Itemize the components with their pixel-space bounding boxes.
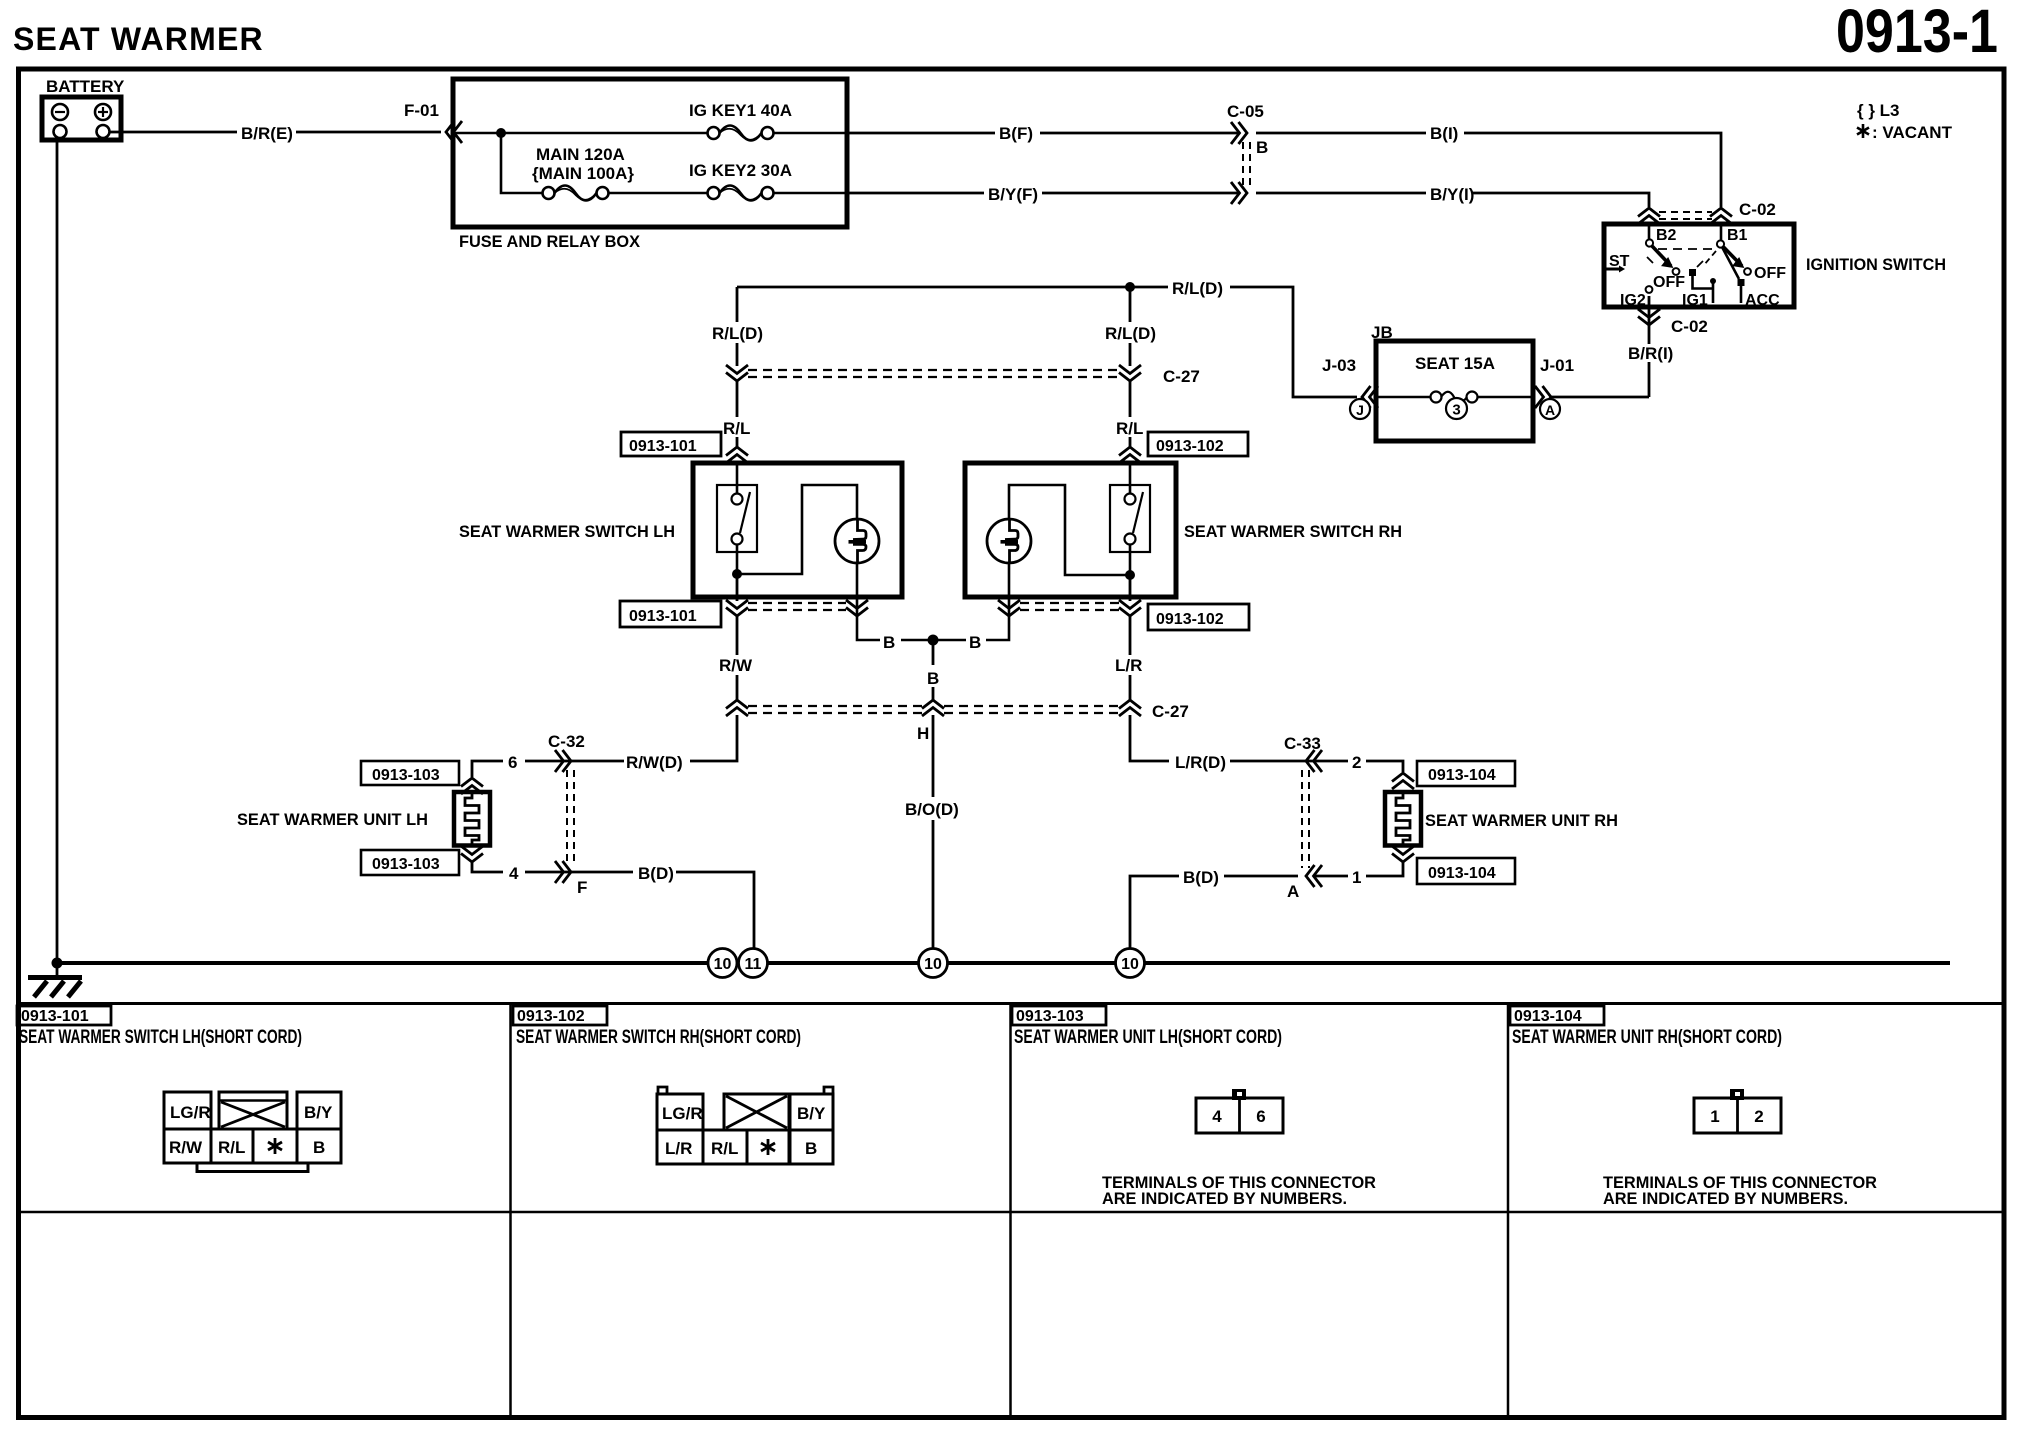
- indicator lamp RH: [987, 519, 1031, 563]
- svg-text:IG KEY2 30A: IG KEY2 30A: [689, 161, 792, 180]
- svg-text:6: 6: [508, 753, 517, 772]
- connector C-02 label lower: [1671, 317, 1708, 336]
- svg-text:J-03: J-03: [1322, 356, 1356, 375]
- connector J-03 chevron: [1362, 386, 1378, 408]
- switch LH contact: [717, 463, 757, 574]
- wire label B(F): [999, 124, 1033, 143]
- seat warmer unit LH element: [454, 792, 490, 846]
- connector face 0913-104 pins 1 and 2: [1694, 1098, 1781, 1133]
- wire inside fuse box top: [453, 132, 847, 135]
- wire B(D) LH to ground 11: [676, 872, 754, 949]
- fuse box label FUSE AND RELAY BOX: [459, 232, 641, 251]
- seat warmer unit LH label: [237, 810, 428, 829]
- connector 0913-102 chevron top: [1119, 447, 1141, 463]
- wire label R/W: [719, 656, 753, 675]
- svg-text:0913-101: 0913-101: [629, 608, 697, 625]
- svg-text:J-01: J-01: [1540, 356, 1574, 375]
- table cell 0913-102 title: [516, 1027, 801, 1048]
- page number 0913-1: [1836, 0, 1998, 65]
- ground symbol: [28, 963, 82, 997]
- connector C-33 label: [1284, 734, 1321, 753]
- svg-text:0913-104: 0913-104: [1428, 865, 1496, 882]
- svg-text:SEAT WARMER UNIT RH(SHORT CORD: SEAT WARMER UNIT RH(SHORT CORD): [1512, 1027, 1782, 1048]
- junction in fuse box: [496, 128, 506, 138]
- terminal ST stub: [1606, 268, 1619, 271]
- svg-text:B: B: [313, 1138, 325, 1157]
- pin number 4: [509, 864, 519, 883]
- connector C-05 chevron on wire B/Y: [1231, 182, 1247, 204]
- junction inside switch RH: [1125, 570, 1135, 580]
- connector C-02 link dashes upper: [1659, 212, 1712, 219]
- connector J-01 chevron: [1535, 386, 1551, 408]
- connector face 0913-102 corner lugs: [658, 1087, 833, 1094]
- connector C-05 label: [1227, 102, 1264, 121]
- svg-text:SEAT WARMER UNIT RH: SEAT WARMER UNIT RH: [1425, 811, 1618, 830]
- wire label R/L right: [1116, 419, 1143, 438]
- connector 0913-101 chevron bottom left: [726, 600, 748, 616]
- svg-text:FUSE AND RELAY BOX: FUSE AND RELAY BOX: [459, 232, 641, 251]
- connector 0913-103 tab top: [361, 761, 459, 785]
- node H label: [917, 724, 929, 743]
- junction block box: [1376, 341, 1533, 441]
- table cell 0913-103 title: [1014, 1027, 1282, 1048]
- connector C-27 lower chevron right: [1119, 700, 1141, 716]
- ignition switch terminal labels: [1609, 227, 1786, 309]
- connector C-27 upper link dashes: [748, 370, 1119, 377]
- svg-text:LG/R: LG/R: [170, 1103, 211, 1122]
- svg-text:B: B: [969, 633, 981, 652]
- blade B2 to OFF: [1652, 246, 1671, 266]
- blade B1 to OFF right: [1724, 247, 1743, 266]
- svg-text:2: 2: [1352, 753, 1361, 772]
- connector face 0913-101 pin LG/R: [164, 1092, 211, 1129]
- svg-text:0913-104: 0913-104: [1428, 767, 1496, 784]
- connector 0913-101 tab top: [621, 432, 721, 456]
- wire B(D) RH to ground 10: [1130, 876, 1298, 949]
- connector J-01 circled A: [1540, 399, 1560, 419]
- svg-text:B(D): B(D): [638, 864, 674, 883]
- svg-text:ARE INDICATED BY NUMBERS.: ARE INDICATED BY NUMBERS.: [1603, 1189, 1848, 1208]
- wire through JB: [1376, 396, 1533, 399]
- wire switch LH output to box edge: [736, 574, 739, 601]
- connector face 0913-102 vacant crossed cavity: [724, 1094, 789, 1130]
- wire R/L(D) down to switch LH: [736, 287, 739, 448]
- indicator lamp LH: [835, 519, 879, 563]
- svg-text:H: H: [917, 724, 929, 743]
- pin number 1: [1352, 868, 1361, 887]
- svg-text:F-01: F-01: [404, 101, 439, 120]
- svg-text:C-02: C-02: [1671, 317, 1708, 336]
- svg-text:A: A: [1545, 402, 1555, 418]
- wire label B/R(E): [241, 124, 293, 143]
- connector face 0913-101 pin R/W: [164, 1129, 211, 1163]
- connector C-05 chevron on wire B: [1231, 122, 1247, 144]
- svg-text:1: 1: [1352, 868, 1361, 887]
- svg-text:R/L: R/L: [711, 1139, 738, 1158]
- connector face 0913-102 pin B: [790, 1130, 833, 1164]
- connector 0913-101 chevron bottom right: [846, 600, 868, 616]
- connector C-02 chevron upper right (B1 wire): [1710, 208, 1732, 224]
- node F label: [577, 878, 587, 897]
- svg-text:10: 10: [1121, 956, 1139, 973]
- connector face 0913-101 keying bracket: [197, 1163, 308, 1172]
- connector C-33 link dashes: [1302, 770, 1309, 868]
- connector C-33 chevron on B(D) with A: [1306, 865, 1322, 887]
- svg-text:OFF: OFF: [1754, 265, 1786, 282]
- svg-text:B: B: [883, 633, 895, 652]
- legend L3: [1857, 101, 1900, 120]
- wire B/O(D) down to ground: [932, 715, 935, 949]
- ground point 11: [739, 949, 768, 978]
- ground point 10 (center): [919, 949, 948, 978]
- connector face 0913-101 vacant crossed cavity: [219, 1092, 287, 1129]
- connector 0913-104 tab top: [1417, 761, 1515, 786]
- connector C-02 chevron lower: [1638, 309, 1660, 325]
- fuse MAIN 120A: [543, 186, 609, 201]
- terminal B1: [1720, 224, 1723, 240]
- connector face 0913-102 pin B/Y: [790, 1094, 833, 1130]
- svg-text:R/L: R/L: [218, 1138, 245, 1157]
- note terminals text RH: [1603, 1173, 1877, 1208]
- svg-text:3: 3: [1452, 402, 1460, 419]
- svg-text:B/Y(I): B/Y(I): [1430, 185, 1474, 204]
- svg-text:IG2: IG2: [1620, 292, 1646, 309]
- fuse MAIN 120A label: [532, 145, 634, 183]
- svg-text:B2: B2: [1656, 227, 1677, 244]
- connector 0913-102 tab top: [1148, 432, 1248, 456]
- junction B wires: [928, 635, 939, 646]
- junction inside switch LH: [732, 569, 742, 579]
- table column divider 2: [1009, 1004, 1012, 1418]
- svg-text:6: 6: [1256, 1107, 1265, 1126]
- battery: [42, 97, 121, 140]
- table cell 0913-101 tab: [17, 1006, 111, 1025]
- seat warmer unit RH element: [1385, 792, 1421, 846]
- svg-text:2: 2: [1754, 1107, 1763, 1126]
- svg-text:0913-104: 0913-104: [1514, 1008, 1582, 1025]
- wire switch RH to lamp: [1009, 485, 1130, 575]
- wire label B/Y(I): [1430, 185, 1474, 204]
- connector J-01 label: [1540, 356, 1574, 375]
- svg-text:B/R(I): B/R(I): [1628, 344, 1673, 363]
- connector J-03 circled J: [1350, 399, 1370, 419]
- svg-text:L/R: L/R: [665, 1139, 692, 1158]
- fuse and relay box: [453, 79, 847, 227]
- svg-text:10: 10: [714, 956, 732, 973]
- connector face 0913-101 pin vacant *: [253, 1129, 297, 1163]
- wire B(I) C-05 to ignition switch B1: [1256, 133, 1721, 207]
- svg-text:LG/R: LG/R: [662, 1104, 703, 1123]
- connector C-32 link dashes: [567, 770, 574, 864]
- connector C-27 lower chevron mid: [922, 700, 944, 716]
- svg-text:R/L(D): R/L(D): [712, 324, 763, 343]
- svg-text:B/Y: B/Y: [797, 1104, 826, 1123]
- svg-text:0913-101: 0913-101: [21, 1008, 89, 1025]
- connector face 0913-101 pin R/L: [211, 1129, 253, 1163]
- blade B1 to ACC: [1722, 247, 1739, 279]
- svg-text:C-02: C-02: [1739, 200, 1776, 219]
- wire pin 4 segment: [472, 862, 633, 872]
- node A label: [1287, 882, 1299, 901]
- connector face 0913-102 pin LG/R: [657, 1094, 703, 1130]
- connector face 0913-103 pins 4 and 6: [1196, 1098, 1283, 1133]
- svg-text:IGNITION SWITCH: IGNITION SWITCH: [1806, 255, 1946, 274]
- wire label B(I): [1430, 124, 1458, 143]
- junction R/L(D) split: [1125, 282, 1135, 292]
- ignition switch label: [1806, 255, 1946, 274]
- wire lamp LH to B junction: [857, 563, 933, 640]
- table cell 0913-104 title: [1512, 1027, 1782, 1048]
- svg-text:0913-103: 0913-103: [1016, 1008, 1084, 1025]
- wire label R/L(D) right drop: [1105, 324, 1156, 343]
- connector face 0913-104 clip: [1730, 1089, 1744, 1100]
- wire label R/L(D) left drop: [712, 324, 763, 343]
- wire label B(D) right: [1183, 868, 1219, 887]
- svg-text:0913-1: 0913-1: [1836, 0, 1998, 65]
- svg-text:B(D): B(D): [1183, 868, 1219, 887]
- svg-text:4: 4: [1212, 1107, 1222, 1126]
- svg-text:SEAT 15A: SEAT 15A: [1415, 354, 1495, 373]
- connector C-27 lower link dashes: [748, 706, 1119, 713]
- wire label L/R(D): [1175, 753, 1226, 772]
- svg-text:11: 11: [745, 956, 762, 973]
- wire L/R down to pin 2 run: [1130, 715, 1169, 761]
- connector 0913-104 tab bottom: [1417, 858, 1515, 884]
- JB label: [1371, 323, 1393, 342]
- title SEAT WARMER: [13, 21, 264, 57]
- fuse IG KEY1 40A label: [689, 101, 792, 120]
- wire R/W down to pin 6 run: [690, 715, 737, 761]
- svg-text:A: A: [1287, 882, 1299, 901]
- fuse IG KEY2 30A label: [689, 161, 792, 180]
- connector C-32 label: [548, 732, 585, 751]
- svg-text:SEAT WARMER UNIT LH: SEAT WARMER UNIT LH: [237, 810, 428, 829]
- table column divider 1: [509, 1004, 512, 1418]
- svg-text:B/Y: B/Y: [304, 1103, 333, 1122]
- wire inside fuse box lower branch: [501, 133, 847, 193]
- seat warmer switch LH label: [459, 522, 675, 541]
- wire R/L(D) horizontal to switches: [737, 286, 1168, 289]
- wire JB to B/R(I) vertical: [1551, 396, 1649, 399]
- table cell 0913-102 tab: [513, 1006, 607, 1025]
- svg-text:J: J: [1356, 402, 1364, 418]
- svg-text:ACC: ACC: [1745, 292, 1780, 309]
- connector C-27 lower chevron left: [726, 700, 748, 716]
- svg-text:ST: ST: [1609, 253, 1630, 270]
- wire L/R switch RH down: [1129, 616, 1132, 700]
- connector C-27 upper label: [1163, 367, 1200, 386]
- connector 0913-103 chevron bottom: [461, 846, 483, 862]
- svg-text:10: 10: [924, 956, 942, 973]
- terminal IG2: [1646, 286, 1653, 293]
- wire label R/L left: [723, 419, 750, 438]
- svg-text:4: 4: [509, 864, 519, 883]
- svg-text:R/W: R/W: [719, 656, 753, 675]
- svg-text:C-27: C-27: [1163, 367, 1200, 386]
- connector face 0913-103 clip: [1232, 1089, 1246, 1100]
- terminal IG1: [1689, 269, 1696, 276]
- svg-text:B: B: [805, 1139, 817, 1158]
- wire R/L(D) down to switch RH: [1129, 287, 1132, 448]
- wire B(F) fuse box to C-05: [847, 132, 1238, 135]
- connector 0913-102 chevron bottom right: [1119, 600, 1141, 616]
- connector 0913-102 chevron bottom left: [998, 600, 1020, 616]
- svg-text:BATTERY: BATTERY: [46, 77, 125, 96]
- connector 0913-103 tab bottom: [361, 850, 459, 875]
- node B label left: [883, 633, 895, 652]
- connector face 0913-101 pin B: [297, 1129, 341, 1163]
- fuse IG KEY1 40A: [708, 126, 774, 141]
- svg-text:F: F: [577, 878, 587, 897]
- ignition switch box: [1604, 224, 1794, 307]
- svg-text:SEAT WARMER: SEAT WARMER: [13, 21, 264, 57]
- connector C-27 lower label: [1152, 702, 1189, 721]
- connector F-01 chevron: [446, 121, 462, 143]
- svg-text:B/Y(F): B/Y(F): [988, 185, 1038, 204]
- svg-text:MAIN 120A: MAIN 120A: [536, 145, 625, 164]
- connector C-27 upper chevron right: [1119, 365, 1141, 381]
- connector 0913-101 link dashes bottom: [748, 603, 846, 610]
- connector face 0913-101 pin B/Y: [297, 1092, 341, 1129]
- svg-text:0913-101: 0913-101: [629, 438, 697, 455]
- table cell 0913-101 title: [19, 1027, 302, 1048]
- junction ground bus at battery: [52, 958, 63, 969]
- svg-text:C-33: C-33: [1284, 734, 1321, 753]
- table middle divider line: [16, 1211, 2004, 1214]
- seat warmer switch LH box: [693, 463, 902, 597]
- svg-text:SEAT WARMER SWITCH LH: SEAT WARMER SWITCH LH: [459, 522, 675, 541]
- connector C-32 chevron on B(D) with F: [555, 861, 571, 883]
- connector C-27 upper chevron left: [726, 365, 748, 381]
- wire B/Y(I) C-05 to ignition switch B2: [1256, 193, 1649, 207]
- svg-text:OFF: OFF: [1653, 274, 1685, 291]
- svg-text:R/L(D): R/L(D): [1105, 324, 1156, 343]
- wire J-03 to R/L(D) riser: [1230, 287, 1357, 397]
- wire battery negative down: [56, 138, 59, 963]
- connector 0913-101 tab bottom: [620, 601, 721, 627]
- svg-text:R/W(D): R/W(D): [626, 753, 683, 772]
- wire label B below junction: [927, 669, 939, 688]
- ground point 10 (right): [1116, 949, 1145, 978]
- wire R/W switch LH down: [736, 616, 739, 700]
- wire pin 6 segment: [472, 761, 624, 777]
- svg-text:B(I): B(I): [1430, 124, 1458, 143]
- switch RH contact: [1110, 463, 1150, 575]
- connector 0913-104 chevron bottom: [1392, 846, 1414, 862]
- ignition switch internals: [1606, 224, 1751, 303]
- connector J-03 label: [1322, 356, 1356, 375]
- note terminals text LH: [1102, 1173, 1376, 1208]
- svg-text:0913-102: 0913-102: [1156, 611, 1224, 628]
- wire label B/Y(F): [988, 185, 1038, 204]
- wire label R/L(D) top: [1172, 279, 1223, 298]
- connector face 0913-102 pin R/L: [703, 1130, 747, 1164]
- svg-text:ARE INDICATED BY NUMBERS.: ARE INDICATED BY NUMBERS.: [1102, 1189, 1347, 1208]
- node B label at C-05: [1256, 138, 1268, 157]
- svg-text:C-32: C-32: [548, 732, 585, 751]
- legend VACANT: [1857, 123, 1953, 142]
- battery label: [46, 77, 125, 96]
- connector C-02 chevron upper left (B2 wire): [1638, 208, 1660, 224]
- table cell 0913-104 tab: [1510, 1006, 1604, 1025]
- svg-text:IG KEY1 40A: IG KEY1 40A: [689, 101, 792, 120]
- wire lamp RH to B junction: [933, 563, 1009, 640]
- connector C-32 chevron on R/W(D): [555, 750, 571, 772]
- pin number 6: [508, 753, 517, 772]
- node B label right: [969, 633, 981, 652]
- wire B/R(E) battery to fuse box: [110, 131, 441, 134]
- svg-text:C-27: C-27: [1152, 702, 1189, 721]
- svg-text:1: 1: [1710, 1107, 1719, 1126]
- svg-text:0913-103: 0913-103: [372, 767, 440, 784]
- svg-text:B/R(E): B/R(E): [241, 124, 293, 143]
- connector F-01 label: [404, 101, 439, 120]
- terminal B2: [1648, 224, 1651, 239]
- wire pin 1 segment: [1314, 862, 1403, 876]
- connector C-05 link dashes: [1243, 142, 1250, 186]
- wire switch RH output to box edge: [1129, 575, 1132, 601]
- wire R/W(D) label: [626, 753, 683, 772]
- svg-text:{MAIN 100A}: {MAIN 100A}: [532, 164, 634, 183]
- svg-text:SEAT WARMER SWITCH RH(SHORT CO: SEAT WARMER SWITCH RH(SHORT CORD): [516, 1027, 801, 1048]
- connector C-02 label upper: [1739, 200, 1776, 219]
- wire switch LH to lamp: [737, 485, 857, 574]
- connector 0913-101 chevron top: [726, 447, 748, 463]
- connector 0913-104 chevron top: [1392, 773, 1414, 789]
- ground point 10 (left pair): [708, 949, 737, 978]
- svg-text:C-05: C-05: [1227, 102, 1264, 121]
- svg-text:R/L(D): R/L(D): [1172, 279, 1223, 298]
- connector 0913-103 chevron top: [461, 778, 483, 794]
- svg-text:B1: B1: [1727, 227, 1748, 244]
- table column divider 3: [1507, 1004, 1510, 1418]
- svg-text:R/L: R/L: [1116, 419, 1143, 438]
- svg-text:IG1: IG1: [1682, 292, 1708, 309]
- circled fuse number 3: [1446, 398, 1467, 419]
- svg-text:L/R(D): L/R(D): [1175, 753, 1226, 772]
- dashed travel B1: [1704, 251, 1716, 265]
- svg-text:B: B: [1256, 138, 1268, 157]
- connector face 0913-102 pin L/R: [657, 1130, 703, 1164]
- seat warmer switch RH box: [965, 463, 1176, 597]
- wire B/Y(F) fuse box to C-05: [847, 192, 1238, 195]
- svg-text:SEAT WARMER UNIT LH(SHORT CORD: SEAT WARMER UNIT LH(SHORT CORD): [1014, 1027, 1282, 1048]
- fuse IG KEY2 30A: [708, 186, 774, 201]
- wire IG2 down from ignition switch: [1648, 296, 1651, 397]
- connector C-33 chevron on L/R(D): [1306, 750, 1322, 772]
- svg-text:R/L: R/L: [723, 419, 750, 438]
- fuse SEAT 15A label: [1415, 354, 1495, 373]
- wire label L/R: [1115, 656, 1142, 675]
- pin number 2: [1352, 753, 1361, 772]
- svg-text:B: B: [927, 669, 939, 688]
- svg-text:B/O(D): B/O(D): [905, 800, 959, 819]
- svg-text:{ } L3: { } L3: [1857, 101, 1900, 120]
- connector face 0913-102 pin vacant *: [747, 1130, 789, 1164]
- svg-text:0913-102: 0913-102: [1156, 438, 1224, 455]
- ground bus wire: [57, 961, 1950, 965]
- svg-text:0913-103: 0913-103: [372, 856, 440, 873]
- wire label B/O(D): [905, 800, 959, 819]
- svg-text:R/W: R/W: [169, 1138, 203, 1157]
- svg-text:0913-102: 0913-102: [517, 1008, 585, 1025]
- dashed travel arc B2: [1658, 248, 1716, 250]
- wire L/R(D) to pin 2: [1230, 761, 1403, 772]
- wire label B(D) left: [638, 864, 674, 883]
- connector 0913-102 link dashes bottom: [1020, 603, 1119, 610]
- seat warmer switch RH label: [1184, 522, 1402, 541]
- fuse SEAT 15A: [1431, 392, 1478, 403]
